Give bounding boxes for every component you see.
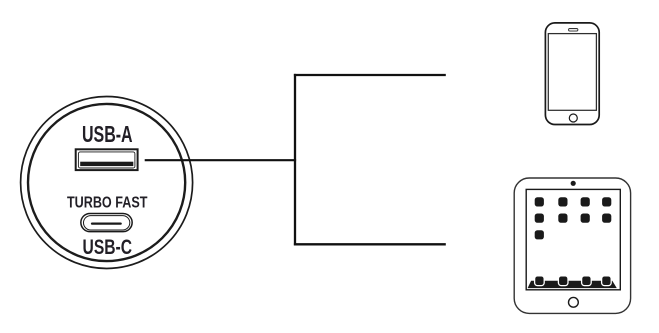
- USB-A port outer shell: [76, 149, 138, 170]
- tablet app icons: [535, 197, 612, 239]
- phone home button: [569, 114, 577, 122]
- USB-A port inner frame: [78, 152, 134, 168]
- splitter vertical wire: [294, 74, 296, 246]
- tablet dock: [528, 281, 617, 288]
- tablet body: [514, 178, 630, 313]
- phone speaker: [569, 29, 578, 32]
- tablet camera: [571, 181, 576, 186]
- USB-C port inner outline: [84, 216, 130, 230]
- phone body: [545, 23, 599, 125]
- svg-text:USB-A: USB-A: [82, 121, 133, 147]
- USB-C port contact dash: [91, 223, 122, 225]
- charger outer ring: [21, 97, 193, 269]
- phone screen: [548, 34, 596, 111]
- USB-A port contact bar: [80, 162, 133, 166]
- tablet screen: [526, 189, 620, 289]
- svg-text:USB-C: USB-C: [83, 235, 133, 259]
- wire to phone: [294, 74, 446, 76]
- tablet dock icons: [535, 276, 612, 286]
- USB-C port outer outline: [81, 213, 132, 231]
- wire to tablet: [294, 243, 446, 245]
- svg-text:TURBO FAST: TURBO FAST: [67, 195, 148, 212]
- wire from USB-A port to splitter: [145, 159, 296, 161]
- charger inner ring: [28, 104, 185, 261]
- tablet home button: [569, 297, 579, 307]
